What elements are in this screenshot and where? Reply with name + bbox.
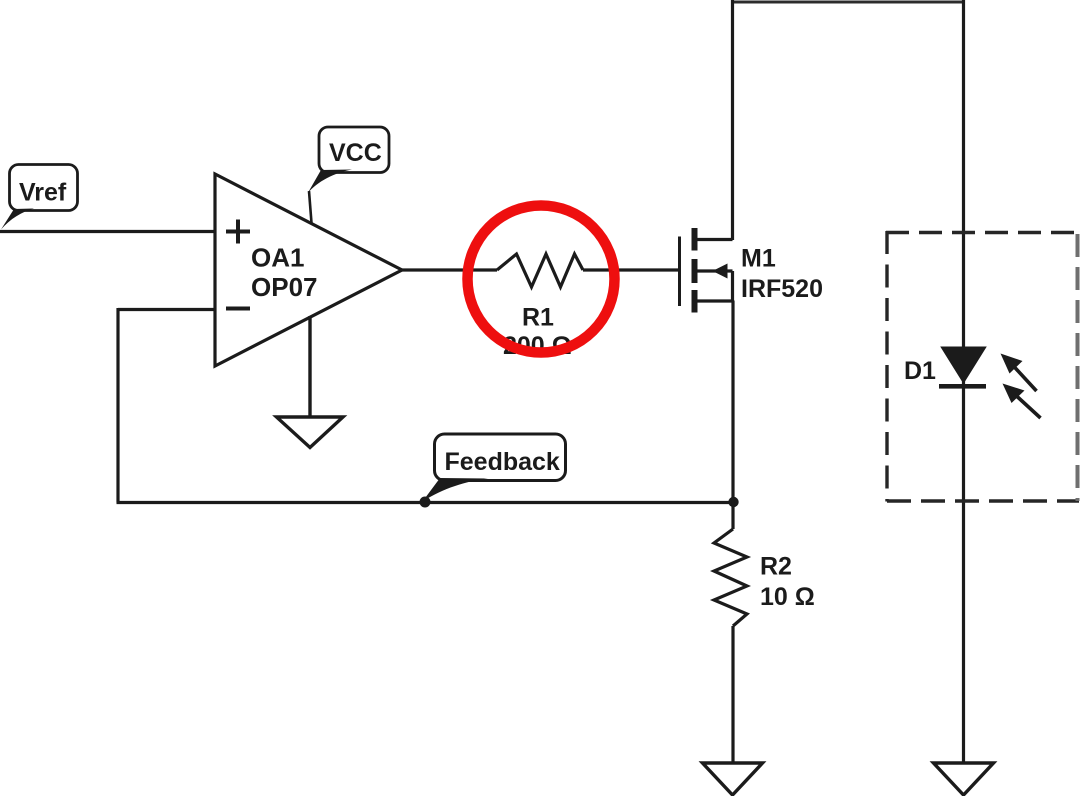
wire Vref input to op-amp non-inverting input (0, 230, 215, 233)
svg-text:VCC: VCC (329, 139, 382, 167)
photodiode D1 (939, 348, 986, 389)
svg-text:D1: D1 (904, 357, 936, 385)
photodiode light arrow upper (1001, 354, 1037, 392)
dashed box bottom edge (887, 499, 1079, 502)
resistor R1 zigzag (497, 254, 583, 287)
transistor M1 MOSFET symbol (680, 228, 733, 313)
wire feedback bottom horizontal (117, 501, 734, 504)
svg-text:OP07: OP07 (251, 272, 318, 302)
wire VCC stub to op-amp top edge (309, 191, 312, 223)
wire op-amp output (400, 268, 497, 271)
wire top bus from M1 drain to D1 branch (733, 1, 964, 4)
svg-text:R2: R2 (760, 553, 792, 581)
svg-text:IRF520: IRF520 (741, 275, 823, 303)
ground below D1 branch (934, 763, 994, 795)
wire junction down to R2 (731, 502, 734, 529)
highlight red circle around R1 (468, 206, 615, 353)
flag label Vref (1, 165, 78, 230)
wire M1 source down to junction (731, 301, 734, 503)
wire R2 to ground (731, 626, 734, 763)
wire D1 branch vertical (962, 0, 965, 763)
dashed box left edge (885, 231, 888, 502)
op-amp U1 OA1 triangle (215, 174, 402, 366)
svg-text:M1: M1 (741, 245, 776, 273)
wire M1 drain vertical (731, 0, 734, 240)
node junction dot at feedback / R2 / M1 source (728, 497, 738, 507)
ground below op-amp (277, 417, 344, 448)
photodiode light arrow lower (1003, 384, 1041, 419)
dashed box right edge (1076, 234, 1080, 501)
dashed box around D1 top edge (886, 231, 1079, 234)
svg-text:R1: R1 (522, 304, 554, 332)
svg-text:Feedback: Feedback (445, 448, 560, 476)
flag label VCC (308, 127, 390, 194)
wire op-amp inverting input (118, 308, 215, 311)
svg-text:10 Ω: 10 Ω (760, 583, 815, 611)
resistor R2 zigzag (714, 529, 747, 626)
wire feedback left vertical (116, 308, 119, 503)
svg-text:OA1: OA1 (251, 243, 304, 273)
ground below R2 (703, 763, 763, 795)
wire op-amp to ground (308, 316, 311, 418)
svg-text:Vref: Vref (19, 179, 67, 207)
flag label Feedback (420, 434, 566, 508)
wire R1 to M1 gate (583, 268, 679, 271)
